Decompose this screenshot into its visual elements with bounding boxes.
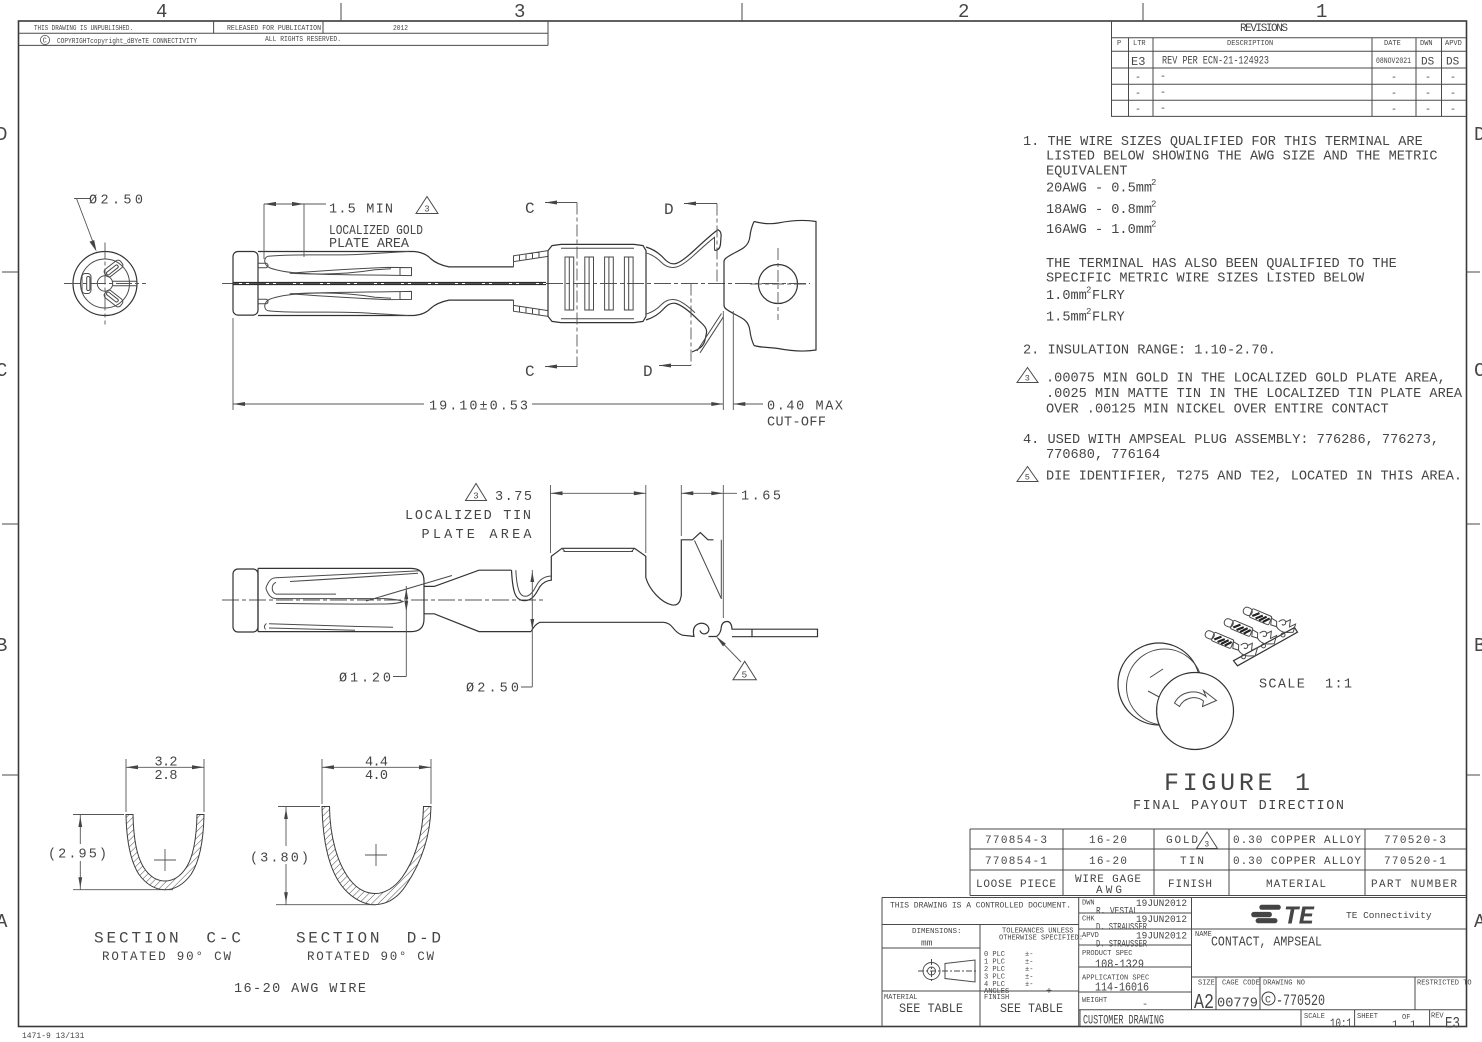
svg-text:DS: DS (1446, 57, 1460, 69)
svg-text:3: 3 (424, 205, 429, 215)
svg-text:ALL RIGHTS RESERVED.: ALL RIGHTS RESERVED. (265, 36, 341, 44)
svg-text:770854-1: 770854-1 (985, 856, 1047, 868)
svg-text:SECTION C-C: SECTION C-C (94, 930, 241, 948)
svg-text:19JUN2012: 19JUN2012 (1136, 931, 1187, 943)
svg-text:FINISH: FINISH (1168, 879, 1212, 891)
svg-text:SHEET: SHEET (1357, 1013, 1378, 1021)
svg-text:SEE TABLE: SEE TABLE (1000, 1001, 1063, 1016)
svg-text:MATERIAL: MATERIAL (1266, 879, 1326, 891)
svg-text:SEE TABLE: SEE TABLE (899, 1001, 963, 1016)
svg-text:REVISIONS: REVISIONS (1240, 23, 1288, 35)
svg-text:3: 3 (1025, 374, 1030, 384)
svg-text:5: 5 (742, 670, 748, 681)
svg-text:-: - (1450, 105, 1456, 116)
svg-text:1.5mm: 1.5mm (1046, 311, 1087, 326)
svg-text:1471-9 13/131: 1471-9 13/131 (22, 1032, 85, 1041)
svg-text:3: 3 (473, 492, 478, 502)
svg-text:THE TERMINAL HAS ALSO BEEN QUA: THE TERMINAL HAS ALSO BEEN QUALIFIED TO … (1046, 257, 1397, 272)
svg-text:C: C (1265, 996, 1271, 1007)
svg-text:E3: E3 (1131, 55, 1145, 69)
svg-text:SECTION D-D: SECTION D-D (296, 930, 441, 948)
svg-text:0.30 COPPER ALLOY: 0.30 COPPER ALLOY (1233, 856, 1361, 868)
svg-text:19JUN2012: 19JUN2012 (1136, 914, 1187, 926)
svg-text:ROTATED 90° CW: ROTATED 90° CW (102, 950, 231, 964)
svg-text:DS: DS (1421, 57, 1435, 69)
svg-text:±-: ±- (1025, 981, 1033, 989)
svg-text:114-16016: 114-16016 (1095, 981, 1149, 995)
svg-text:5: 5 (1025, 473, 1030, 483)
svg-text:Ø2.50: Ø2.50 (89, 194, 143, 209)
svg-text:3.75: 3.75 (495, 490, 532, 505)
svg-text:-770520: -770520 (1276, 992, 1325, 1010)
svg-text:(3.80): (3.80) (250, 852, 309, 867)
svg-text:COPYRIGHTcopyright_dBYeTE CONN: COPYRIGHTcopyright_dBYeTE CONNECTIVITY (57, 38, 197, 46)
svg-text:770854-3: 770854-3 (985, 835, 1047, 847)
svg-text:CUSTOMER DRAWING: CUSTOMER DRAWING (1083, 1014, 1164, 1028)
svg-text:1.5 MIN: 1.5 MIN (329, 203, 393, 218)
svg-text:CONTACT, AMPSEAL: CONTACT, AMPSEAL (1211, 936, 1322, 951)
svg-text:TIN: TIN (1180, 856, 1204, 868)
svg-text:THIS DRAWING IS UNPUBLISHED.: THIS DRAWING IS UNPUBLISHED. (34, 25, 133, 33)
svg-text:B: B (1474, 635, 1482, 657)
svg-text:-: - (1160, 88, 1166, 99)
svg-text:16-20 AWG WIRE: 16-20 AWG WIRE (234, 982, 366, 997)
svg-text:mm: mm (921, 938, 933, 949)
svg-text:LOOSE PIECE: LOOSE PIECE (976, 879, 1056, 891)
svg-text:16-20: 16-20 (1089, 835, 1127, 847)
svg-text:DIE IDENTIFIER, T275 AND TE2,: DIE IDENTIFIER, T275 AND TE2, LOCATED IN… (1046, 470, 1462, 485)
svg-text:2: 2 (1086, 286, 1091, 296)
svg-text:10:1: 10:1 (1330, 1017, 1352, 1031)
svg-text:D: D (0, 124, 7, 146)
svg-text:A: A (1474, 911, 1482, 933)
svg-text:-: - (1425, 105, 1431, 116)
svg-text:DWN: DWN (1082, 900, 1095, 908)
svg-text:4. USED WITH AMPSEAL PLUG ASSE: 4. USED WITH AMPSEAL PLUG ASSEMBLY: 7762… (1023, 433, 1439, 448)
svg-text:Ø2.50: Ø2.50 (466, 682, 519, 697)
svg-text:RESTRICTED TO: RESTRICTED TO (1417, 980, 1472, 988)
svg-text:-: - (1425, 89, 1431, 100)
svg-text:SPECIFIC METRIC WIRE SIZES LIS: SPECIFIC METRIC WIRE SIZES LISTED BELOW (1046, 272, 1365, 287)
svg-text:DESCRIPTION: DESCRIPTION (1227, 40, 1273, 48)
svg-text:OTHERWISE SPECIFIED:: OTHERWISE SPECIFIED: (999, 935, 1083, 943)
svg-text:2: 2 (1151, 199, 1156, 209)
svg-text:770520-1: 770520-1 (1384, 856, 1446, 868)
svg-text:-: - (1135, 89, 1141, 100)
svg-text:770520-3: 770520-3 (1384, 835, 1446, 847)
svg-text:770680, 776164: 770680, 776164 (1046, 448, 1160, 463)
svg-text:4: 4 (156, 1, 167, 23)
svg-text:(2.95): (2.95) (48, 848, 107, 863)
svg-text:P: P (1117, 40, 1121, 48)
svg-text:NAME: NAME (1195, 931, 1212, 939)
svg-text:SCALE 1:1: SCALE 1:1 (1259, 678, 1352, 693)
svg-text:FIGURE 1: FIGURE 1 (1164, 769, 1310, 798)
svg-text:FLRY: FLRY (1092, 311, 1125, 326)
svg-text:CUT-OFF: CUT-OFF (767, 416, 826, 431)
svg-text:EQUIVALENT: EQUIVALENT (1046, 164, 1128, 179)
svg-text:TE: TE (1284, 903, 1315, 932)
svg-text:FLRY: FLRY (1092, 289, 1125, 304)
svg-text:LOCALIZED TIN: LOCALIZED TIN (405, 509, 531, 524)
svg-text:RELEASED FOR PUBLICATION: RELEASED FOR PUBLICATION (227, 25, 321, 33)
svg-text:Ø1.20: Ø1.20 (339, 672, 391, 687)
svg-text:AWG: AWG (1096, 885, 1122, 897)
svg-text:1: 1 (1410, 1019, 1416, 1031)
svg-text:FINAL PAYOUT DIRECTION: FINAL PAYOUT DIRECTION (1133, 799, 1344, 814)
svg-text:C: C (0, 360, 7, 382)
svg-text:-: - (1450, 89, 1456, 100)
svg-text:2012: 2012 (393, 25, 408, 33)
svg-text:PLATE AREA: PLATE AREA (422, 528, 533, 543)
svg-text:D: D (643, 363, 653, 381)
svg-text:GOLD: GOLD (1166, 835, 1198, 847)
svg-text:WEIGHT: WEIGHT (1082, 997, 1107, 1005)
svg-text:.0025 MIN MATTE TIN IN THE LOC: .0025 MIN MATTE TIN IN THE LOCALIZED TIN… (1046, 387, 1463, 402)
svg-text:2: 2 (1151, 220, 1156, 230)
svg-text:SIZE: SIZE (1198, 980, 1215, 988)
svg-text:3: 3 (1204, 841, 1209, 850)
svg-text:2.8: 2.8 (155, 769, 178, 784)
svg-text:-: - (1450, 73, 1456, 84)
svg-text:-: - (1425, 73, 1431, 84)
svg-text:0.30 COPPER ALLOY: 0.30 COPPER ALLOY (1233, 835, 1361, 847)
svg-text:-: - (1135, 73, 1141, 84)
svg-text:C: C (525, 200, 535, 218)
svg-text:2. INSULATION RANGE: 1.10-2.70: 2. INSULATION RANGE: 1.10-2.70. (1023, 344, 1276, 359)
svg-text:-: - (1391, 105, 1397, 116)
svg-text:108-1329: 108-1329 (1095, 958, 1144, 972)
svg-text:REV PER ECN-21-124923: REV PER ECN-21-124923 (1162, 56, 1269, 68)
svg-text:R. VESTAL: R. VESTAL (1096, 906, 1138, 918)
svg-text:18AWG - 0.8mm: 18AWG - 0.8mm (1046, 203, 1152, 218)
svg-text:REV: REV (1431, 1013, 1444, 1021)
svg-text:DWN: DWN (1420, 40, 1433, 48)
svg-text:CAGE CODE: CAGE CODE (1222, 980, 1260, 988)
svg-text:19.10±0.53: 19.10±0.53 (429, 400, 528, 415)
svg-text:C: C (43, 38, 47, 46)
svg-text:DIMENSIONS:: DIMENSIONS: (912, 928, 962, 936)
svg-text:2: 2 (1086, 307, 1091, 317)
svg-text:16-20: 16-20 (1089, 856, 1127, 868)
svg-text:LISTED BELOW SHOWING THE AWG S: LISTED BELOW SHOWING THE AWG SIZE AND TH… (1046, 150, 1438, 165)
svg-text:B: B (0, 635, 7, 657)
svg-text:A2: A2 (1194, 992, 1214, 1015)
svg-text:TE Connectivity: TE Connectivity (1346, 910, 1432, 921)
svg-text:-: - (1391, 89, 1397, 100)
svg-text:C: C (525, 363, 535, 381)
svg-text:DRAWING NO: DRAWING NO (1263, 980, 1305, 988)
svg-text:SCALE: SCALE (1304, 1013, 1325, 1021)
svg-text:D: D (1474, 124, 1482, 146)
svg-text:+: + (1046, 987, 1052, 998)
svg-text:-: - (1142, 1000, 1148, 1011)
svg-text:PLATE AREA: PLATE AREA (329, 237, 410, 252)
svg-text:ROTATED 90° CW: ROTATED 90° CW (307, 950, 434, 964)
svg-text:2: 2 (958, 1, 969, 23)
svg-text:C: C (1474, 360, 1482, 382)
svg-text:1: 1 (1392, 1019, 1398, 1031)
svg-text:-: - (1160, 72, 1166, 83)
svg-text:00779: 00779 (1217, 997, 1258, 1012)
svg-text:THIS DRAWING IS A CONTROLLED D: THIS DRAWING IS A CONTROLLED DOCUMENT. (890, 902, 1071, 911)
svg-text:20AWG - 0.5mm: 20AWG - 0.5mm (1046, 182, 1152, 197)
svg-text:A: A (0, 911, 8, 933)
svg-text:1. THE WIRE SIZES QUALIFIED FO: 1. THE WIRE SIZES QUALIFIED FOR THIS TER… (1023, 135, 1423, 150)
svg-text:PART NUMBER: PART NUMBER (1371, 879, 1457, 891)
svg-text:-: - (1160, 104, 1166, 115)
svg-text:2: 2 (1151, 178, 1156, 188)
svg-text:16AWG - 1.0mm: 16AWG - 1.0mm (1046, 223, 1152, 238)
svg-text:E3: E3 (1445, 1015, 1460, 1033)
svg-text:-: - (1135, 105, 1141, 116)
svg-text:4.0: 4.0 (365, 769, 388, 784)
svg-text:0.40 MAX: 0.40 MAX (767, 400, 843, 415)
svg-text:DATE: DATE (1384, 40, 1401, 48)
svg-text:3: 3 (514, 1, 525, 23)
svg-text:08NOV2021: 08NOV2021 (1376, 56, 1411, 66)
svg-text:.00075 MIN GOLD IN THE LOCALIZ: .00075 MIN GOLD IN THE LOCALIZED GOLD PL… (1046, 372, 1446, 387)
svg-text:APVD: APVD (1445, 40, 1462, 48)
svg-text:OVER .00125 MIN NICKEL OVER EN: OVER .00125 MIN NICKEL OVER ENTIRE CONTA… (1046, 402, 1389, 417)
svg-text:1: 1 (1316, 1, 1327, 23)
svg-text:19JUN2012: 19JUN2012 (1136, 898, 1187, 910)
svg-text:D: D (664, 201, 674, 219)
svg-text:LTR: LTR (1133, 40, 1146, 48)
svg-text:1.0mm: 1.0mm (1046, 289, 1087, 304)
svg-text:-: - (1391, 73, 1397, 84)
svg-text:CHK: CHK (1082, 916, 1095, 924)
svg-text:1.65: 1.65 (741, 490, 781, 505)
